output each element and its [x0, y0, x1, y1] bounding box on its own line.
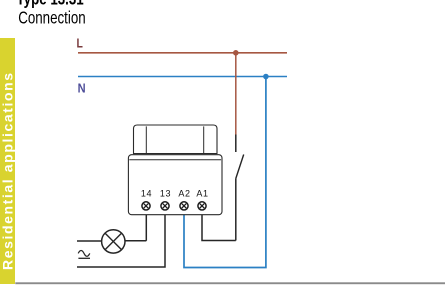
svg-text:Residential applications: Residential applications: [0, 71, 16, 270]
svg-text:14: 14: [141, 189, 152, 199]
svg-text:A2: A2: [178, 189, 190, 199]
svg-text:13: 13: [160, 189, 171, 199]
svg-text:Type 13.31: Type 13.31: [17, 0, 84, 9]
svg-text:N: N: [78, 81, 86, 96]
svg-text:Connection: Connection: [18, 9, 85, 28]
svg-text:L: L: [77, 36, 83, 50]
svg-text:A1: A1: [196, 189, 208, 199]
